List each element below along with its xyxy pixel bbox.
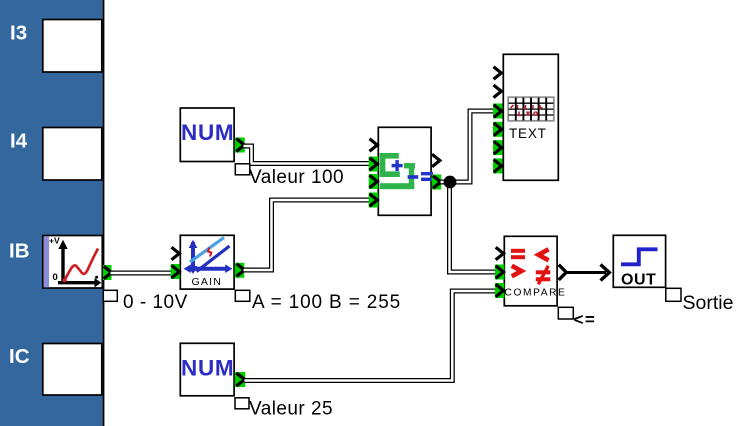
COMPARE label box [558, 307, 573, 319]
svg-text:Valeur 25: Valeur 25 [249, 399, 333, 420]
analog input IB block [43, 236, 103, 289]
NUM2 label box [235, 398, 249, 409]
input I3 box [43, 20, 102, 73]
GAIN output pin [235, 263, 245, 278]
NUM1 label box [235, 164, 250, 175]
IB icon axes [58, 240, 101, 288]
comparator block U1 [378, 127, 431, 215]
input I4 box [43, 128, 102, 181]
wire comparator to junction [441, 180, 451, 185]
wire GAIN to comparator input 4 [244, 200, 371, 270]
TEXT input pin 4 [493, 122, 503, 137]
block NUM2 (Valeur 25) [180, 343, 234, 396]
comparator output pin 2 [432, 175, 442, 190]
TEXT input pin 1 (unconnected) [494, 67, 502, 80]
junction node [444, 176, 457, 189]
COMPARE output pin [559, 265, 567, 280]
wire junction up to TEXT input 3 [452, 111, 494, 182]
comparator input pin 3 [369, 174, 379, 189]
svg-text:GAIN: GAIN [192, 276, 222, 288]
boolean wire COMPARE to OUT [566, 265, 610, 281]
COMPARE input pin 2 [495, 265, 505, 280]
TEXT input pin 6 [493, 158, 503, 173]
GAIN label box [235, 290, 250, 301]
svg-text:0: 0 [53, 272, 58, 283]
svg-text:Sortie: Sortie [683, 292, 734, 314]
IB icon red signal curve [62, 249, 98, 283]
NUM1 output pin [235, 138, 245, 153]
comparator output pin 1 (unconnected) [432, 154, 440, 167]
IB range label box [103, 290, 117, 301]
svg-text:I3: I3 [10, 22, 27, 45]
svg-text:TEXT: TEXT [509, 126, 547, 141]
TEXT input pin 3 [493, 104, 503, 119]
comparator input pin 2 [369, 157, 379, 172]
COMPARE input pin 3 [495, 283, 505, 298]
svg-text:0 - 10V: 0 - 10V [123, 292, 188, 313]
TEXT grid icon [508, 97, 554, 121]
comparator input pin 1 (unconnected) [370, 139, 378, 152]
block TEXT [503, 54, 558, 180]
block NUM1 (Valeur 100) [180, 108, 234, 162]
svg-text:NUM: NUM [181, 120, 234, 145]
OUT label box [666, 288, 681, 301]
OUT step icon [621, 249, 658, 264]
svg-text:COMPARE: COMPARE [505, 287, 567, 298]
svg-text:Valeur 100: Valeur 100 [249, 167, 344, 188]
wire NUM2 to COMPARE input 3 [245, 291, 497, 381]
svg-text:IB: IB [9, 240, 30, 263]
svg-text:OUT: OUT [621, 272, 656, 289]
svg-text:I4: I4 [10, 130, 28, 153]
GAIN input pin 2 [171, 264, 180, 279]
TEXT input pin 2 (unconnected) [494, 85, 502, 98]
NUM2 output pin [235, 372, 246, 387]
block OUT (Sortie) [613, 235, 665, 287]
IB output pin [103, 265, 112, 280]
COMPARE input pin 1 (unconnected) [496, 247, 504, 260]
comparator icon [380, 153, 433, 189]
svg-text:A = 100 B = 255: A = 100 B = 255 [252, 292, 401, 313]
wire junction down to COMPARE input 2 [450, 184, 497, 272]
panel edge line [103, 0, 105, 426]
block GAIN B1 [180, 235, 234, 289]
GAIN icon [184, 238, 233, 275]
svg-text:<=: <= [574, 310, 597, 329]
svg-text:+V: +V [49, 236, 60, 246]
input IC box [43, 344, 102, 396]
wire IB to GAIN [111, 271, 173, 276]
wire NUM1 to comparator input 2 [244, 146, 371, 164]
I/O rack panel [0, 0, 103, 426]
COMPARE icon [511, 249, 550, 284]
TEXT input pin 5 [493, 140, 503, 155]
GAIN input pin 1 (unconnected) [172, 247, 180, 260]
svg-text:NUM: NUM [181, 356, 234, 381]
svg-text:IC: IC [9, 345, 30, 368]
comparator input pin 4 [369, 193, 379, 208]
block COMPARE [504, 236, 557, 305]
